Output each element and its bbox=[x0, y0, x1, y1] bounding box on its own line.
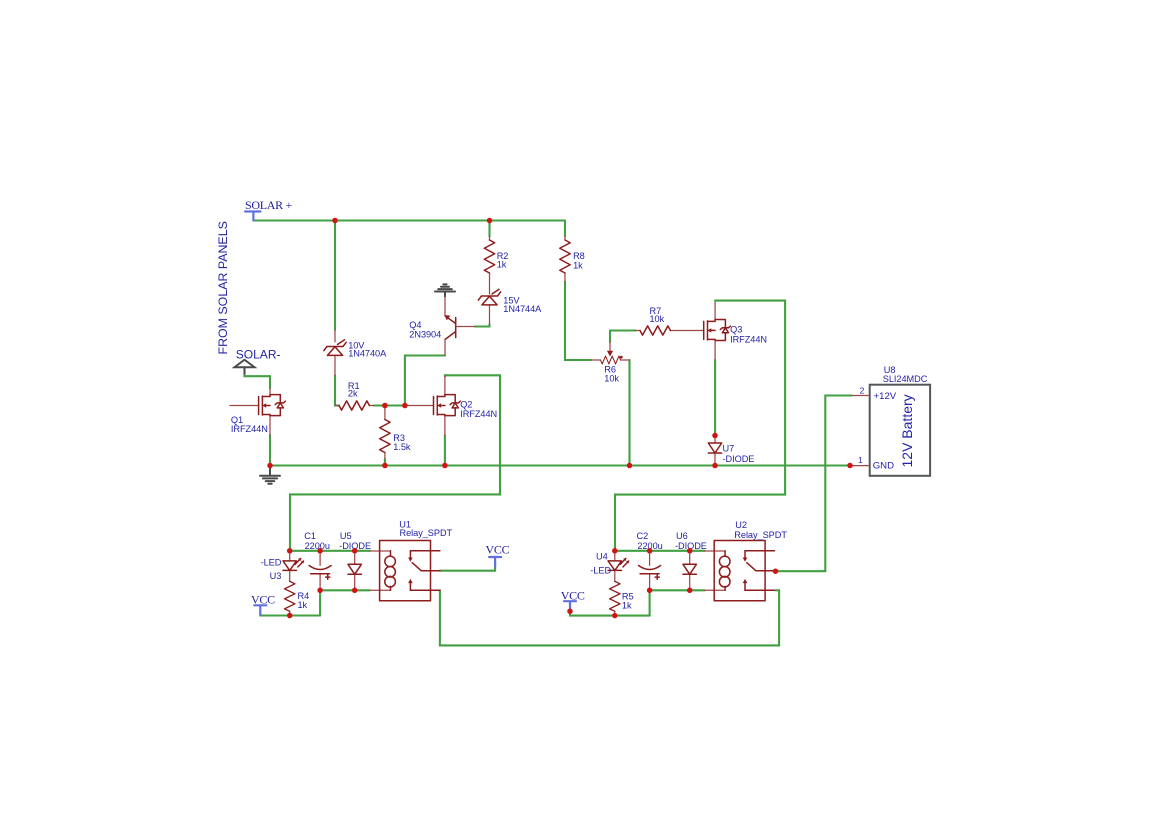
resistor R4 1k bbox=[285, 581, 310, 615]
svg-text:1k: 1k bbox=[573, 260, 583, 270]
wire SOLAR+ bus top bbox=[254, 219, 566, 221]
junction SOLAR+ / zener bbox=[332, 218, 338, 224]
zener diode 1N4744A 15V bbox=[478, 289, 542, 324]
label SOLAR + bbox=[245, 198, 293, 221]
svg-text:2200u: 2200u bbox=[305, 541, 330, 551]
wire C1 down bbox=[319, 590, 321, 615]
resistor R3 1.5k bbox=[380, 406, 411, 460]
svg-text:-LED: -LED bbox=[590, 565, 611, 575]
junction U3 top bbox=[287, 548, 293, 554]
junction U6 bottom bbox=[687, 588, 693, 594]
wire battery +12V to relay U2 common bbox=[776, 396, 852, 572]
wire zener 15V to Q4 base bbox=[475, 325, 490, 327]
wire U1 common to VCC bbox=[440, 564, 495, 571]
junction U4 top bbox=[612, 548, 618, 554]
junction U5 bottom bbox=[352, 588, 358, 594]
wire SOLAR- to Q1 drain bbox=[245, 374, 271, 388]
wire Q3 source to U7 bbox=[714, 360, 716, 436]
wire node to Q4 collector bbox=[405, 356, 445, 406]
svg-text:1: 1 bbox=[858, 455, 863, 465]
svg-text:1k: 1k bbox=[298, 600, 308, 610]
ground above Q4 (flipped) bbox=[435, 284, 455, 296]
svg-text:-DIODE: -DIODE bbox=[723, 454, 755, 464]
svg-text:FROM SOLAR PANELS: FROM SOLAR PANELS bbox=[216, 221, 230, 354]
wire VCC row left bbox=[260, 614, 320, 616]
svg-text:10k: 10k bbox=[604, 374, 619, 384]
junction U7 top bbox=[712, 433, 718, 439]
wire Q1 source bbox=[269, 435, 271, 466]
wire Q2 source bbox=[444, 435, 446, 465]
svg-text:VCC: VCC bbox=[486, 542, 510, 556]
svg-text:1.5k: 1.5k bbox=[393, 442, 411, 452]
junction C2 bottom bbox=[647, 588, 653, 594]
svg-text:10k: 10k bbox=[650, 314, 665, 324]
resistor R2 1k bbox=[484, 236, 508, 294]
svg-text:IRFZ44N: IRFZ44N bbox=[460, 409, 497, 419]
junction ground row / U7 bbox=[712, 463, 718, 469]
wire R8 top bbox=[564, 221, 566, 237]
wire U3 row to U1 coil bbox=[290, 550, 370, 552]
junction C2 top bbox=[647, 548, 653, 554]
svg-text:Relay_SPDT: Relay_SPDT bbox=[400, 528, 453, 538]
capacitor C2 2200u bbox=[637, 531, 663, 590]
LED U3 bbox=[261, 551, 305, 582]
wire zener 10V to R1 bbox=[335, 376, 339, 406]
svg-text:SLI24MDC: SLI24MDC bbox=[883, 374, 928, 384]
svg-text:2: 2 bbox=[860, 385, 865, 395]
wire R8 bottom to R6 bbox=[565, 282, 591, 361]
svg-text:U7: U7 bbox=[723, 444, 735, 454]
diode U7 bbox=[708, 436, 754, 466]
svg-text:1N4744A: 1N4744A bbox=[503, 304, 542, 314]
svg-text:2k: 2k bbox=[348, 389, 358, 399]
svg-text:IRFZ44N: IRFZ44N bbox=[730, 334, 767, 344]
wire R1 right to Q2 gate node bbox=[374, 404, 405, 406]
junction C1 top bbox=[317, 548, 323, 554]
junction C1 bottom bbox=[317, 588, 323, 594]
svg-text:-LED: -LED bbox=[261, 558, 282, 568]
svg-text:Q2: Q2 bbox=[460, 400, 472, 410]
transistor Q2 IRFZ44N bbox=[405, 376, 497, 435]
junction R1 / R3 bbox=[382, 403, 388, 409]
wire R2 branch bbox=[488, 221, 490, 237]
junction U6 top bbox=[687, 548, 693, 554]
resistor R7 10k bbox=[636, 306, 704, 335]
potentiometer R6 10k bbox=[591, 342, 630, 384]
wire U4 row to U2 coil bbox=[615, 550, 705, 552]
zener diode 1N4740A 10V bbox=[324, 330, 387, 376]
transistor Q4 2N3904 bbox=[409, 296, 474, 355]
battery U8 SLI24MDC bbox=[852, 365, 931, 476]
svg-text:U2: U2 bbox=[735, 520, 747, 530]
svg-text:12V Battery: 12V Battery bbox=[899, 394, 915, 467]
junction ground row / R6 bbox=[627, 463, 633, 469]
svg-text:U5: U5 bbox=[340, 531, 352, 541]
resistor R8 1k bbox=[560, 236, 585, 281]
power flag VCC middle bbox=[561, 588, 585, 610]
svg-text:Q4: Q4 bbox=[409, 320, 421, 330]
svg-text:2N3904: 2N3904 bbox=[409, 330, 441, 340]
power flag VCC right of U1 bbox=[486, 542, 510, 566]
LED U4 bbox=[590, 551, 629, 582]
junction R5 bottom bbox=[612, 613, 618, 619]
svg-text:Relay_SPDT: Relay_SPDT bbox=[734, 530, 787, 540]
wire ground row bbox=[270, 464, 850, 466]
junction relay U2 common bbox=[773, 568, 779, 574]
wire Q3 drain loop to U4 bbox=[615, 301, 785, 551]
wire C1 row to U1 coil bottom bbox=[320, 589, 370, 591]
transistor Q1 IRFZ44N bbox=[230, 388, 286, 435]
svg-text:Q3: Q3 bbox=[730, 325, 742, 335]
resistor R5 1k bbox=[610, 581, 634, 615]
transistor Q3 IRFZ44N bbox=[704, 302, 767, 360]
junction U5 top bbox=[352, 548, 358, 554]
label SOLAR- bbox=[235, 348, 281, 374]
relay U1 Relay_SPDT bbox=[370, 520, 453, 601]
junction ground row / battery GND bbox=[847, 463, 853, 469]
junction ground row / Q1 bbox=[267, 463, 273, 469]
svg-text:1k: 1k bbox=[497, 259, 507, 269]
wire C2 row to U2 coil bottom bbox=[650, 589, 705, 591]
svg-text:U6: U6 bbox=[676, 531, 688, 541]
svg-text:C2: C2 bbox=[637, 531, 649, 541]
junction ground row / R3 bbox=[382, 463, 388, 469]
wire R7 left to R6 wiper bbox=[610, 331, 636, 343]
ground at Q1 source bbox=[260, 466, 280, 484]
svg-text:1N4740A: 1N4740A bbox=[348, 348, 387, 358]
power flag VCC left bbox=[251, 593, 275, 615]
svg-text:+12V: +12V bbox=[874, 391, 897, 402]
wire VCC row middle bbox=[570, 611, 650, 615]
wire zener 10V branch bbox=[334, 221, 336, 331]
diode U5 bbox=[339, 531, 371, 590]
svg-text:C1: C1 bbox=[304, 531, 316, 541]
junction ground row / Q2 bbox=[442, 463, 448, 469]
wire R3 bottom bbox=[384, 459, 386, 466]
junction R1 / Q2 gate bbox=[402, 403, 408, 409]
svg-text:IRFZ44N: IRFZ44N bbox=[231, 424, 268, 434]
junction SOLAR+ / R2 bbox=[487, 218, 493, 224]
wire U1 NC to U2 NC bottom run bbox=[440, 590, 779, 645]
wire Q2 drain loop to U3 bbox=[290, 375, 500, 551]
diode U6 bbox=[675, 531, 707, 590]
capacitor C1 2200u bbox=[304, 531, 331, 590]
svg-text:1k: 1k bbox=[622, 601, 632, 611]
resistor R1 2k bbox=[335, 381, 374, 410]
relay U2 Relay_SPDT bbox=[705, 520, 788, 601]
svg-text:SOLAR-: SOLAR- bbox=[236, 348, 281, 362]
svg-text:U4: U4 bbox=[596, 551, 608, 561]
junction R4 bottom bbox=[287, 613, 293, 619]
svg-text:GND: GND bbox=[873, 460, 894, 471]
svg-text:SOLAR +: SOLAR + bbox=[245, 198, 293, 212]
wire C2 down bbox=[649, 590, 651, 615]
wire R6 right to ground row bbox=[628, 360, 630, 466]
junction VCC middle bbox=[567, 608, 573, 614]
svg-text:U3: U3 bbox=[270, 571, 282, 581]
